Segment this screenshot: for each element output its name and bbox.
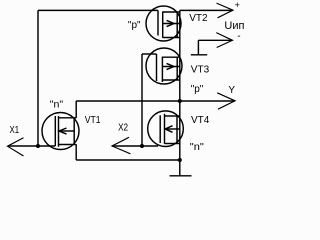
wire bottom common <box>76 159 180 161</box>
minus terminal drop wire <box>197 40 199 54</box>
ground bar <box>170 175 192 177</box>
svg-text:"n": "n" <box>50 99 64 110</box>
transistor VT1 substrate stub <box>59 130 74 132</box>
transistor VT4 circle <box>148 111 184 147</box>
transistor VT2 circle <box>146 6 181 41</box>
svg-text:VT2: VT2 <box>189 13 208 24</box>
wire VT2 source to +Uип <box>180 9 233 11</box>
wire VT4 drain-source column <box>179 101 181 160</box>
transistor VT1 source stub <box>59 144 77 146</box>
transistor VT2 channel bar <box>162 12 164 38</box>
transistor VT1 gate bar <box>54 116 56 146</box>
minus terminal bar <box>191 54 207 56</box>
svg-text:"p": "p" <box>128 20 141 31</box>
transistor VT1 drain stub <box>59 117 77 119</box>
transistor VT3 channel bar <box>161 57 163 83</box>
transistor VT3 gate bar <box>156 54 158 81</box>
transistor VT4 gate bar <box>159 115 161 143</box>
svg-text:Y: Y <box>228 85 235 96</box>
transistor VT3 substrate stub <box>162 66 179 68</box>
wire X1 lead <box>8 145 38 147</box>
wire left rail X1 to top <box>37 10 39 146</box>
transistor VT3 substrate arrow <box>167 63 174 69</box>
svg-text:-: - <box>237 31 240 42</box>
transistor VT2 substrate arrow <box>167 20 174 26</box>
transistor VT2 source stub <box>163 11 180 13</box>
transistor VT1 internal DS bar <box>73 118 75 145</box>
svg-text:VT1: VT1 <box>85 115 101 126</box>
wire VT3 gate lead <box>142 53 157 55</box>
wire VT1 source drop <box>75 144 77 160</box>
wire VT1 drain-source bar <box>75 101 77 118</box>
terminal arrow Y <box>217 93 235 109</box>
transistor VT4 channel bar <box>164 114 166 144</box>
transistor VT4 source stub <box>165 143 180 145</box>
transistor VT3 internal DS bar <box>176 57 178 80</box>
wire VT1 gate lead <box>38 145 55 147</box>
transistor VT2 substrate stub <box>163 23 180 25</box>
transistor VT3 circle <box>146 48 182 84</box>
terminal arrow X1 <box>8 138 24 156</box>
svg-text:"p": "p" <box>191 84 204 95</box>
wire VT2-VT3 drain column <box>179 10 181 101</box>
terminal arrow X2 <box>112 137 130 154</box>
transistor VT3 source stub <box>162 56 179 58</box>
wire top X1 to VT2 gate <box>38 9 158 11</box>
node ground junction <box>178 158 182 162</box>
svg-text:VT3: VT3 <box>191 64 210 75</box>
transistor VT4 drain stub <box>165 115 180 117</box>
terminal arrow plus <box>217 3 234 18</box>
node X2 junction <box>140 144 144 148</box>
transistor VT1 channel bar <box>58 116 60 147</box>
terminal arrow minus <box>216 33 232 48</box>
transistor VT3 drain stub <box>162 79 179 81</box>
wire minus terminal lead <box>198 39 232 41</box>
transistor VT4 substrate arrow <box>165 126 172 133</box>
transistor VT1 circle <box>42 113 79 150</box>
svg-text:VT4: VT4 <box>191 115 210 126</box>
ground drop wire <box>179 160 181 175</box>
node Y junction <box>178 99 182 103</box>
transistor VT1 substrate arrow <box>59 128 67 134</box>
wire X2 lead to VT4 gate <box>112 145 158 147</box>
transistor VT2 internal DS bar <box>176 12 178 38</box>
wire X2 rail up to VT3 gate <box>141 54 143 146</box>
transistor VT4 internal DS bar <box>176 116 178 144</box>
svg-text:"n": "n" <box>190 142 204 153</box>
wire output Y line <box>76 100 235 102</box>
svg-text:+: + <box>235 0 240 10</box>
transistor VT2 drain stub <box>163 37 180 39</box>
transistor VT4 substrate stub <box>165 128 180 130</box>
node X1 junction <box>36 144 40 148</box>
svg-text:X2: X2 <box>118 123 128 134</box>
svg-text:Uип: Uип <box>224 20 244 32</box>
transistor VT2 gate bar <box>157 10 159 35</box>
svg-text:X1: X1 <box>10 125 20 136</box>
